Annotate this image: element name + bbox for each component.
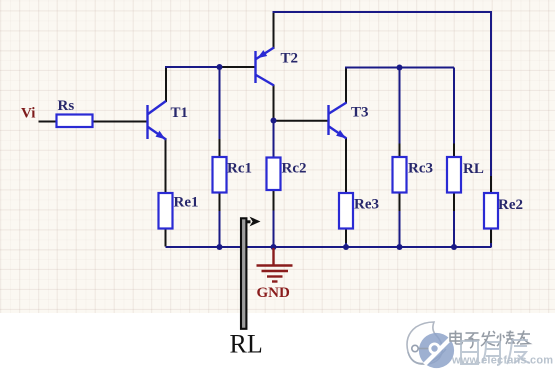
wire: Rc2 bottom pin — [273, 190, 275, 211]
resistor Rc1 — [213, 157, 227, 193]
annotation arrow RL callout shaft — [241, 218, 246, 328]
wire: T1 emitter to Re1 — [165, 138, 167, 193]
wire: T2 collector drop — [273, 85, 275, 120]
svg-text:Vi: Vi — [21, 106, 35, 122]
svg-text:T2: T2 — [281, 51, 299, 67]
wire: mid rail down to RL — [453, 68, 455, 144]
svg-text:Rc2: Rc2 — [282, 161, 307, 177]
wire: top supply rail — [273, 12, 492, 176]
resistor Re2 — [484, 193, 498, 229]
wire: Re1 bottom lead — [165, 229, 167, 247]
svg-text:Re2: Re2 — [498, 197, 523, 213]
svg-text:Rs: Rs — [58, 98, 75, 114]
svg-text:RL: RL — [463, 161, 484, 177]
svg-text:RL: RL — [230, 330, 263, 359]
wire: Rc1 to bottom rail — [219, 211, 221, 247]
ground GND symbol — [257, 248, 293, 282]
wire: node A down to Rc1 — [219, 67, 221, 139]
wire: Rc2 to bottom rail — [273, 211, 275, 248]
wire: node B to T3 base — [276, 120, 328, 122]
wire: Re3 to bottom rail — [345, 243, 347, 247]
svg-text:www.elecfans.com: www.elecfans.com — [451, 355, 553, 367]
resistor Rc3 — [393, 157, 407, 193]
wire: Rc3 bottom pin — [399, 193, 401, 212]
svg-text:GND: GND — [257, 285, 291, 301]
wire: T1 collector riser — [165, 66, 167, 102]
junction dot RL bottom — [451, 244, 457, 250]
wire: Re3 bottom pin — [345, 229, 347, 244]
wire: node C down to Rc3 — [399, 68, 401, 144]
transistor T1 — [148, 101, 167, 140]
wire: RL top pin — [453, 144, 455, 158]
wire: mid rail T3 to RL — [345, 67, 454, 69]
wire: bottom ground rail — [166, 246, 492, 248]
wire: Vi lead to Rs — [39, 121, 57, 123]
svg-text:T1: T1 — [171, 105, 189, 121]
wire: Re2 top pin — [490, 176, 492, 193]
node C junction dot — [397, 65, 403, 71]
node B junction dot — [271, 118, 277, 124]
node A junction dot — [217, 64, 223, 70]
svg-text:Rc3: Rc3 — [408, 161, 433, 177]
resistor RL — [447, 157, 461, 193]
wire: Rc3 to bottom rail — [399, 211, 401, 247]
watermark text elecfans — [450, 331, 530, 349]
wire: Re2 to bottom rail — [490, 243, 492, 248]
wire: Rs to T1 base — [93, 121, 148, 123]
svg-text:Rc1: Rc1 — [227, 161, 252, 177]
junction dot Rc3 bottom — [397, 244, 403, 250]
annotation arrow head — [247, 217, 261, 227]
watermark text riyuechen — [461, 340, 530, 365]
junction dot Re3 bottom — [343, 244, 349, 250]
resistor Re1 — [159, 193, 173, 229]
svg-text:Re1: Re1 — [174, 195, 199, 211]
wire: T2 emitter riser — [273, 11, 275, 49]
wire: node B to Rc2 — [273, 121, 275, 158]
wire: Re2 bottom pin — [490, 229, 492, 244]
wire: Rc3 top pin — [399, 144, 401, 158]
wire: T1 collector to node A — [165, 66, 220, 68]
wire: Rc1 top pin — [219, 139, 221, 157]
wire: Rc1 bottom pin — [219, 193, 221, 212]
wire: T3 emitter to Re3 — [345, 138, 347, 193]
resistor Re3 — [339, 193, 353, 229]
wire: T3 collector riser — [345, 67, 347, 104]
wire: RL bottom pin — [453, 193, 455, 212]
resistor Rs — [57, 115, 93, 128]
svg-text:Re3: Re3 — [354, 197, 379, 213]
svg-text:T3: T3 — [351, 105, 369, 121]
wire: RL to bottom rail — [453, 211, 455, 247]
transistor T2 — [256, 48, 275, 86]
junction dot Rc1 bottom — [217, 244, 223, 250]
watermark logo swirl — [407, 322, 454, 368]
transistor T3 — [329, 103, 347, 139]
resistor Rc2 — [267, 158, 281, 191]
wire: node A to T2 base — [220, 66, 256, 68]
junction dot Rc2 bottom / GND — [271, 244, 277, 250]
